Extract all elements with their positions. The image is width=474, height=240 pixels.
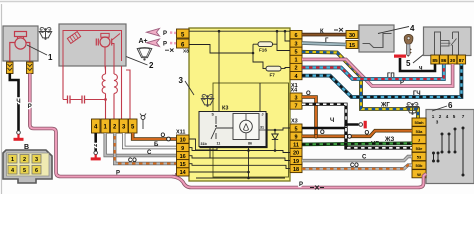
block bottom bus with K3.86 drop: [196, 147, 285, 179]
connector X1 pins 6 3 5 1 2 4: [290, 31, 302, 80]
svg-text:15: 15: [180, 162, 186, 168]
connector X8 pin 5: [177, 29, 190, 38]
pink arrow row 2: [147, 39, 160, 47]
wire pink Р X1.1 to relay 30: [302, 59, 453, 86]
wire gray-orange СО from wiper pin 2 to X11.15: [115, 133, 177, 164]
wire gray С from wiper pin 1 to X11.16: [105, 133, 177, 156]
mounting block 3 (body): [189, 28, 290, 181]
pink arrow to А+ row 1: [147, 28, 160, 36]
svg-text:ч: ч: [419, 66, 423, 72]
svg-text:16: 16: [180, 154, 186, 160]
block wire X11.10 to K3.11: [189, 139, 217, 150]
svg-text:31: 31: [260, 126, 264, 130]
svg-text:10: 10: [180, 138, 186, 144]
svg-text:Р: Р: [28, 104, 32, 110]
block internal top bus wire: [189, 31, 290, 41]
ground terminal (red) on right: [359, 123, 363, 127]
svg-text:3: 3: [294, 95, 297, 101]
splice mark near X8: [165, 49, 174, 52]
svg-text:Х3: Х3: [291, 119, 298, 125]
svg-text:Ч: Ч: [330, 118, 334, 124]
label 3: [185, 81, 194, 95]
ignition key: [404, 34, 413, 56]
ignition switch 4 (box): [359, 25, 394, 52]
suppression filter choke under wiper motor: [102, 66, 117, 119]
svg-text:1: 1: [432, 114, 435, 119]
svg-text:30: 30: [450, 58, 456, 64]
svg-text:Б: Б: [154, 142, 159, 148]
svg-text:Ч: Ч: [16, 99, 20, 105]
washer icon near switch 6: [406, 102, 418, 114]
label 4: [378, 27, 409, 34]
svg-text:СО: СО: [350, 163, 359, 169]
svg-text:Р: Р: [116, 171, 120, 177]
svg-text:4: 4: [446, 114, 449, 119]
svg-text:О: О: [161, 133, 166, 139]
svg-text:С: С: [147, 150, 152, 156]
fuse F7: [253, 44, 290, 77]
block wire X11.14 bus: [189, 171, 249, 173]
svg-text:7: 7: [294, 104, 297, 110]
svg-text:F16: F16: [259, 48, 267, 53]
washer pump connector pin right: [27, 62, 34, 74]
junction dot filter/pin1: [104, 98, 107, 101]
svg-text:6: 6: [294, 33, 297, 39]
washer pump connector pin left: [7, 62, 14, 74]
svg-text:14: 14: [180, 170, 187, 176]
mounting block inner module outline: [213, 83, 289, 177]
fuse F16: [253, 30, 290, 53]
svg-text:6: 6: [448, 101, 453, 110]
svg-text:53: 53: [417, 155, 422, 160]
K3 inner wiper unit box with motor: [233, 114, 259, 140]
svg-text:СО: СО: [128, 158, 137, 164]
svg-text:3: 3: [294, 41, 297, 47]
wire black Ч from washer pump to ground: [10, 74, 19, 131]
svg-text:W: W: [417, 172, 421, 177]
connector X4 pins 3 7: [290, 93, 302, 110]
wire yellow-blue ЖГ X1.5 to switch 53ah: [302, 52, 418, 118]
wire white Б from wiper pin 3 to X11.9: [124, 133, 177, 148]
switch 6 contact bars: [434, 128, 464, 175]
label 1: [27, 45, 47, 55]
ignition relay 5 (box): [424, 27, 472, 56]
svg-text:5: 5: [406, 59, 411, 68]
svg-text:5: 5: [294, 126, 297, 132]
connector X3 pins 5 9 11 20 19 18: [290, 124, 302, 173]
svg-text:ч: ч: [94, 143, 97, 149]
K3 contact inside: [211, 116, 233, 139]
switch 6 pins 53ah 53a J 53e 53 53b W: [412, 118, 426, 178]
svg-text:3: 3: [436, 120, 439, 125]
block wire K3.31 to X3.5: [266, 128, 290, 130]
suppression filter capacitors under wiper motor: [63, 66, 130, 119]
block wire X11.9 to diode and X3.20: [189, 148, 290, 153]
wire blue Г X1.3 to ignition 15: [302, 43, 346, 44]
svg-text:F7: F7: [270, 73, 276, 78]
svg-text:53ah: 53ah: [414, 120, 424, 125]
svg-text:ГП: ГП: [387, 73, 395, 79]
splice mark on bottom pink wire: [310, 186, 324, 190]
svg-text:1: 1: [48, 53, 53, 62]
wiper motor connector pins 4 1 2 3 5: [92, 119, 138, 133]
svg-text:2: 2: [439, 114, 442, 119]
block wire X8.6 to K3.S junction: [189, 45, 253, 54]
label 5: [413, 54, 424, 63]
svg-text:53a: 53a: [416, 129, 423, 134]
svg-text:ГЧ: ГЧ: [413, 91, 421, 97]
connector X8 pin 6: [177, 39, 190, 48]
svg-text:В: В: [24, 144, 29, 151]
connector X11 pins 10 9 16 15 14: [177, 135, 190, 176]
wire blue-black ГЧ X1.4 to relay 87: [302, 64, 461, 97]
block wire X11.15 to X3.18: [189, 164, 290, 169]
svg-text:5: 5: [23, 168, 26, 174]
svg-text:О: О: [365, 131, 370, 137]
wire black-white ЧБ X3.5 down to switch 53e: [346, 128, 412, 148]
wire orange О X4.3 / X3.9 to switch 53a: [302, 97, 412, 136]
svg-text:ЖГ: ЖГ: [380, 103, 390, 109]
page top edge line: [0, 1, 474, 3]
svg-text:К: К: [320, 29, 324, 35]
svg-text:6: 6: [35, 168, 38, 174]
splice mark on К wire: [334, 28, 343, 32]
wire black ч relay 85 to ground bar: [400, 58, 435, 71]
svg-text:86: 86: [441, 58, 447, 64]
diode inside block: [272, 130, 278, 151]
washer icon top left: [39, 27, 51, 39]
svg-text:Х11: Х11: [176, 130, 185, 136]
label 2: [126, 57, 148, 66]
block wire X11.16 to X3.19: [189, 156, 290, 161]
cam contact inside wiper motor: [67, 32, 80, 44]
switch 6 column numbers: [432, 114, 465, 125]
block wire K3.S up: [218, 31, 220, 111]
svg-text:Р: Р: [299, 182, 303, 188]
svg-text:11: 11: [217, 142, 221, 146]
wire black from wiper pin 4 to ground: [94, 133, 97, 151]
ignition switch pin 30: [346, 31, 358, 39]
svg-text:18: 18: [293, 167, 299, 173]
washer icon inside mounting block: [201, 94, 213, 106]
ground bar (red) at ignition switch: [394, 55, 406, 58]
ground terminal (red) below washer wire: [17, 131, 21, 135]
svg-text:3: 3: [35, 157, 38, 163]
svg-text:2: 2: [149, 61, 154, 70]
svg-text:5: 5: [294, 50, 297, 56]
svg-text:1: 1: [294, 58, 297, 64]
svg-text:1: 1: [11, 157, 14, 163]
svg-text:2: 2: [23, 157, 26, 163]
svg-text:Р: Р: [163, 31, 167, 37]
svg-text:ЖЗ: ЖЗ: [384, 137, 394, 143]
svg-text:11: 11: [293, 143, 299, 149]
svg-text:С: С: [362, 155, 367, 161]
wire green-black ЖЗ X3.11 to switch J: [302, 143, 412, 144]
page left edge line: [1, 4, 3, 194]
svg-text:85: 85: [432, 58, 438, 64]
svg-text:К3: К3: [222, 106, 228, 112]
relay K3 box: [199, 112, 267, 148]
svg-text:J: J: [418, 137, 420, 142]
svg-text:20: 20: [293, 151, 299, 157]
svg-text:7: 7: [462, 114, 465, 119]
wire pink Р from washer pump down and right to X11.14: [30, 74, 177, 177]
svg-text:15: 15: [349, 43, 355, 49]
svg-text:86: 86: [248, 142, 252, 146]
svg-text:Х4: Х4: [291, 88, 299, 94]
svg-text:2: 2: [294, 66, 297, 72]
block wire K3.J up to X4.3: [259, 83, 261, 112]
motor armature inside wiper motor: [100, 37, 110, 47]
svg-text:53e: 53e: [416, 146, 423, 151]
wiper icon near label 2: [137, 48, 152, 61]
svg-text:Х8: Х8: [183, 49, 189, 55]
body ground bolt symbol right of pin 5: [140, 114, 146, 130]
svg-text:J: J: [262, 113, 264, 117]
wire black Ч X4.7 to body ground: [302, 104, 346, 128]
wire gray С X3.19 to switch 53: [302, 157, 412, 161]
svg-text:53b: 53b: [416, 163, 423, 168]
svg-text:5: 5: [453, 114, 456, 119]
svg-text:О: О: [306, 91, 311, 97]
svg-text:9: 9: [294, 135, 297, 141]
svg-text:4: 4: [410, 24, 415, 33]
K3 pin labels: [201, 113, 265, 147]
wiper motor 2 (box): [59, 24, 126, 66]
wire blue-red ГП X1.2 to relay 86: [302, 64, 444, 79]
svg-text:О: О: [320, 130, 325, 136]
wire pink Р branch to switch W: [172, 174, 426, 188]
label 6: [432, 106, 447, 111]
svg-text:Г: Г: [325, 38, 329, 44]
svg-text:30: 30: [349, 33, 355, 39]
svg-text:Р: Р: [163, 42, 167, 48]
washer pump motor 1 (box): [3, 26, 38, 63]
ground terminal (red) below wiper pin 4: [94, 151, 98, 155]
steering column switch 6 (box): [426, 110, 474, 184]
svg-text:А+: А+: [139, 38, 148, 45]
connector B (bottom left): [3, 150, 52, 183]
wire gray-orange СО X3.18 to switch 53b: [302, 165, 412, 169]
relay pins 85 86 30 87: [431, 55, 466, 64]
ignition switch pin 15: [346, 41, 358, 49]
svg-text:3: 3: [179, 76, 184, 85]
connector B pins 1-6: [8, 155, 41, 175]
wire orange О from wiper pin 5 to X11.10: [133, 133, 177, 139]
svg-text:19: 19: [293, 159, 299, 165]
wire brown К X1.6 to ignition 30: [302, 33, 346, 37]
svg-text:9: 9: [181, 146, 184, 152]
svg-text:87: 87: [459, 58, 465, 64]
svg-text:31b: 31b: [201, 142, 208, 146]
